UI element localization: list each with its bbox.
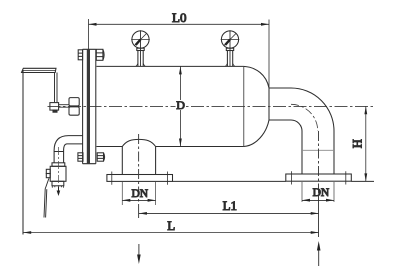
dimension D xyxy=(176,66,185,146)
baseline between flanges xyxy=(173,180,286,182)
vessel shell bottom line xyxy=(97,146,244,148)
label L0 xyxy=(172,10,186,25)
drain valve centerline xyxy=(57,147,59,186)
inlet flow arrow xyxy=(137,244,141,264)
outlet nozzle flange xyxy=(286,171,352,184)
girth flange plates xyxy=(83,49,96,163)
label DN right xyxy=(313,187,330,199)
label H xyxy=(351,139,365,148)
level gauge standpipe xyxy=(22,71,24,235)
drain valve lever xyxy=(44,178,49,217)
dimension H xyxy=(364,106,367,181)
baseline right extension xyxy=(351,180,374,182)
svg-text:D: D xyxy=(176,98,185,112)
outlet flow arrow xyxy=(317,241,321,266)
outlet elbow pipe xyxy=(269,88,334,174)
drain outlet flow arrow xyxy=(57,187,61,197)
drain elbow pipe xyxy=(54,136,83,163)
girth flange top bolt xyxy=(78,49,104,60)
dimension DN right xyxy=(302,182,334,202)
dimension L1 xyxy=(139,212,319,215)
dimension L0 xyxy=(89,19,270,88)
vessel head tangent line xyxy=(243,66,245,146)
label DN left xyxy=(132,188,149,200)
inlet nozzle N1 centerline xyxy=(138,134,140,218)
svg-text:L0: L0 xyxy=(172,10,186,25)
svg-text:DN: DN xyxy=(313,187,330,199)
pressure gauge PG1 xyxy=(131,30,150,66)
drain valve V2 body xyxy=(46,163,66,188)
vessel centerline xyxy=(48,105,375,107)
svg-text:L: L xyxy=(167,218,175,233)
inlet nozzle N1 flange xyxy=(107,172,173,185)
svg-text:L1: L1 xyxy=(223,198,237,213)
label D xyxy=(176,98,185,112)
gauge valve top pipe xyxy=(55,73,58,103)
girth flange bottom bolt xyxy=(78,153,105,161)
svg-text:DN: DN xyxy=(132,188,149,200)
svg-text:H: H xyxy=(351,139,365,148)
gauge valve V1 xyxy=(50,98,79,116)
dimension DN left xyxy=(122,182,155,205)
label L1 xyxy=(223,198,237,213)
vessel shell top line xyxy=(97,65,244,67)
inlet nozzle N1 neck xyxy=(122,139,155,174)
dimension L xyxy=(23,231,319,234)
label L xyxy=(167,218,175,233)
vessel dished head xyxy=(244,66,269,146)
pressure gauge PG2 xyxy=(221,30,240,66)
level gauge top bar xyxy=(22,68,57,72)
outlet elbow centerline xyxy=(291,104,319,237)
